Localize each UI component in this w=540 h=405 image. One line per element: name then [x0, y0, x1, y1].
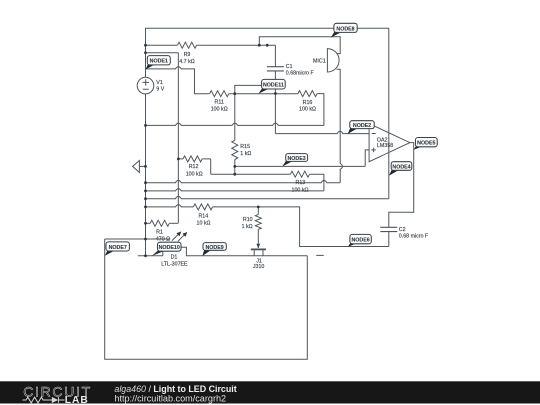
- label C2 value: [399, 227, 429, 240]
- wire R9 feed y=45.2 from rail: [146, 44, 178, 46]
- wire ground y=190.9 rail to R13 with hop: [146, 189, 324, 191]
- capacitor C2: [380, 227, 397, 231]
- label R11 value: [211, 100, 228, 113]
- node NODE1: [146, 56, 171, 70]
- label R13 value: [292, 180, 309, 194]
- junction dots: [144, 44, 277, 257]
- svg-text:9 V: 9 V: [156, 87, 164, 93]
- microphone MIC1: [327, 49, 339, 72]
- svg-text:NODE7: NODE7: [109, 245, 127, 251]
- svg-text:R12: R12: [189, 164, 199, 170]
- svg-text:470 Ω: 470 Ω: [156, 237, 170, 243]
- FOOTER_START: [0, 381, 540, 405]
- label R1 value: [156, 229, 170, 242]
- wire left ground rail below battery: [145, 94, 147, 256]
- svg-text:100 kΩ: 100 kΩ: [299, 107, 316, 113]
- node NODE6: [348, 234, 371, 246]
- node NODE7: [105, 242, 130, 256]
- svg-text:R11: R11: [215, 100, 224, 106]
- svg-text:10 kΩ: 10 kΩ: [197, 220, 211, 226]
- wire NODE3 y=174.2 from R12 vertical to R13: [211, 173, 291, 175]
- svg-text:MIC1: MIC1: [313, 59, 326, 65]
- label R15 value: [240, 144, 251, 157]
- wire R12 leads: [178, 158, 210, 160]
- svg-text:J310: J310: [253, 264, 265, 270]
- node NODE3: [282, 154, 307, 167]
- svg-text:1 kΩ: 1 kΩ: [242, 224, 253, 230]
- node NODE2: [348, 121, 375, 134]
- wire D1 cathode jog down to main wire: [181, 247, 308, 256]
- wire NODE11 stub from R11 junction: [235, 85, 263, 93]
- resistor R14: [193, 204, 212, 210]
- svg-text:LM358: LM358: [377, 143, 393, 149]
- wire top rail +9V from battery top to top-right corner: [146, 28, 389, 77]
- label R10 value: [242, 217, 253, 230]
- node NODE8: [331, 23, 357, 37]
- resistor R10 vertical: [255, 214, 261, 229]
- wire R10 top lead: [257, 207, 259, 215]
- label J1 value: [253, 258, 265, 270]
- LED D1 (hidden behind NODE10 label): [163, 244, 181, 251]
- resistor R1: [150, 220, 169, 226]
- svg-text:R14: R14: [198, 213, 208, 219]
- svg-text:100 kΩ: 100 kΩ: [292, 188, 309, 194]
- wire NODE7 loop top y=239: [105, 238, 171, 240]
- resistor R15 vertical: [232, 140, 238, 159]
- wire C1 top lead: [274, 45, 276, 66]
- svg-text:R15: R15: [240, 144, 250, 150]
- svg-text:NODE4: NODE4: [392, 164, 410, 170]
- input port arrow left: [133, 161, 140, 173]
- LED D1 light arrows: [172, 231, 187, 241]
- wire ground y=125.4 rail to R16 right with hops: [146, 123, 324, 125]
- wire op-amp plus input jog: [365, 150, 369, 167]
- svg-text:LAB: LAB: [65, 395, 89, 405]
- wire bottom main y=255.8 left segment with stub: [138, 247, 163, 256]
- svg-text:NODE10: NODE10: [159, 245, 180, 251]
- svg-text:NODE11: NODE11: [263, 83, 284, 89]
- wire NODE1 frame top y=52.8: [146, 52, 179, 54]
- label C1 value: [286, 64, 315, 76]
- wire R1 left lead from rail: [146, 222, 151, 224]
- wire R1 right lead to +9V vertical: [169, 222, 178, 224]
- svg-text:NODE8: NODE8: [336, 26, 354, 32]
- label V1 value: [156, 80, 164, 93]
- wire ground loop rectangle: [105, 239, 308, 359]
- wire R14 feed y=206.9 from rail with hop: [146, 205, 194, 207]
- svg-text:R10: R10: [243, 217, 253, 223]
- svg-text:alga460 / Light to LED Circuit: alga460 / Light to LED Circuit: [114, 384, 236, 394]
- wire minus-input vertical from C1 junction: [274, 94, 276, 134]
- svg-text:100 kΩ: 100 kΩ: [211, 106, 228, 112]
- svg-text:100 kΩ: 100 kΩ: [186, 172, 203, 178]
- wire R11 right to R16 left with junctions: [229, 93, 298, 95]
- label MIC1: [313, 59, 326, 65]
- capacitor C1: [267, 67, 284, 71]
- wire R13 right lead down to y=190.9: [310, 174, 324, 191]
- svg-text:NODE1: NODE1: [150, 59, 168, 65]
- wire C1 bottom lead through NODE11 to junction: [274, 71, 276, 93]
- resistor R12: [183, 156, 202, 162]
- svg-text:D1: D1: [171, 255, 178, 261]
- wire NODE1 frame bottom y=68.9 with hop, down to R11: [146, 67, 210, 94]
- wire C2 bottom lead: [388, 232, 390, 247]
- wire R14 right to corner down to C2 bottom wire: [213, 207, 389, 247]
- svg-text:R16: R16: [303, 100, 313, 106]
- wire R15 bottom lead: [234, 160, 236, 175]
- label OA2 LM358: [377, 137, 393, 149]
- resistor R13: [290, 171, 309, 177]
- svg-text:NODE3: NODE3: [287, 156, 305, 162]
- svg-text:R1: R1: [156, 229, 163, 235]
- transistor J1 JFET: [251, 244, 266, 256]
- svg-text:R9: R9: [184, 52, 191, 58]
- resistor R16: [298, 91, 317, 97]
- wire R12 right lead vertical x=210.7: [210, 159, 212, 174]
- svg-text:LTL-307EE: LTL-307EE: [161, 262, 188, 268]
- svg-text:0.68 micro F: 0.68 micro F: [399, 234, 429, 240]
- wire right vertical NODE8 net down to NODE4 wire: [388, 28, 390, 199]
- resistor R11: [210, 91, 229, 97]
- svg-text:0.68micro F: 0.68micro F: [286, 70, 315, 76]
- node NODE4: [389, 162, 412, 176]
- wire NODE4 horizontal y=198.7 rail to right vertical with hop over +9V vertical: [146, 196, 389, 198]
- wire NODE3 y=166.4 from R15 lead to op-amp plus jog: [235, 165, 365, 167]
- svg-text:C1: C1: [286, 64, 293, 70]
- svg-text:1 kΩ: 1 kΩ: [240, 151, 251, 157]
- svg-text:V1: V1: [156, 80, 163, 86]
- svg-text:NODE9: NODE9: [205, 245, 223, 251]
- label R12 value: [186, 164, 203, 177]
- wire +9V vertical x=178.35 from NODE1 frame down to R1 right end: [177, 53, 179, 224]
- wire R16 right lead down to ground wire: [317, 94, 324, 126]
- svg-text:NODE2: NODE2: [353, 123, 371, 129]
- wire R9 right to C1 top corner with junctions: [197, 44, 276, 46]
- svg-text:C2: C2: [399, 227, 406, 233]
- voltage source V1: [137, 77, 154, 94]
- svg-text:R13: R13: [296, 180, 306, 186]
- label D1 value: [161, 255, 188, 268]
- wire mic bottom vertical with hop over NODE3 wire: [337, 69, 343, 182]
- node NODE5: [414, 138, 438, 150]
- wire R15 top lead from R11 junction: [234, 94, 236, 141]
- wire mic top feed y=36.75: [259, 37, 340, 54]
- wire R10 bottom to J1 gate: [257, 229, 259, 248]
- node NODE11: [259, 79, 286, 93]
- label R14 value: [197, 213, 211, 226]
- svg-text:http://circuitlab.com/cargrh2: http://circuitlab.com/cargrh2: [114, 393, 226, 403]
- svg-text:NODE6: NODE6: [351, 238, 369, 244]
- wire op-amp output to C2 top: [389, 143, 414, 227]
- svg-text:NODE5: NODE5: [417, 141, 435, 147]
- wire input arrow stub: [139, 165, 145, 167]
- wire ground y=182.7 rail to mic vertical with hops: [146, 180, 341, 182]
- op-amp OA2 triangle: [369, 124, 410, 162]
- wire floating dash right of J1: [316, 254, 323, 256]
- node NODE10: [152, 242, 181, 256]
- resistor R9: [177, 42, 196, 48]
- label R16 value: [299, 100, 316, 113]
- label R9 value: [179, 52, 194, 65]
- node NODE9: [203, 243, 227, 256]
- svg-text:4.7 kΩ: 4.7 kΩ: [179, 59, 194, 65]
- wire op-amp minus input y=133.6 with hop over mic vertical: [275, 131, 369, 133]
